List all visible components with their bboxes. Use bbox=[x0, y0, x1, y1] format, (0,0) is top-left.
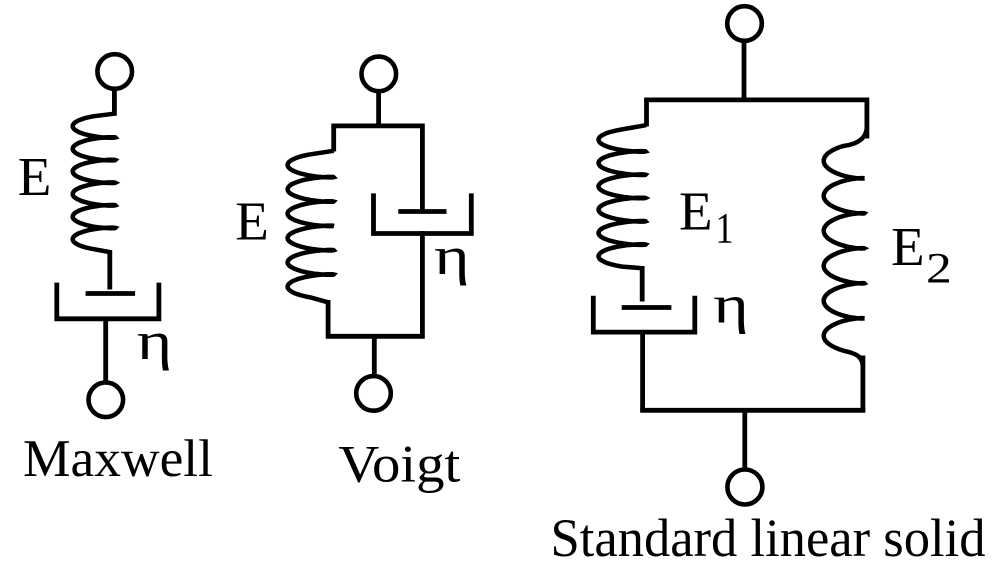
wire (Voigt top bar with branch corners) bbox=[334, 126, 423, 212]
dashpot piston plate (Voigt) bbox=[398, 209, 446, 214]
wire (SLS bottom bar) bbox=[640, 408, 865, 413]
spring E2 (SLS right) bbox=[824, 126, 867, 368]
svg-text:E: E bbox=[891, 216, 925, 277]
spring E (Voigt) bbox=[288, 151, 334, 302]
dashpot piston plate (Maxwell) bbox=[86, 291, 136, 296]
svg-text:2: 2 bbox=[926, 246, 952, 293]
wire (SLS left bottom rod) bbox=[640, 332, 645, 412]
wire (SLS bottom rod) bbox=[742, 410, 747, 470]
wire (Voigt top rod) bbox=[376, 91, 381, 126]
terminal circle (Voigt bottom) bbox=[356, 376, 391, 411]
spring E1 (SLS left) bbox=[599, 125, 647, 268]
dashpot cup (SLS) bbox=[593, 296, 695, 332]
svg-text:E: E bbox=[679, 180, 713, 241]
svg-text:E: E bbox=[18, 146, 52, 207]
wire (SLS top rod) bbox=[742, 41, 747, 101]
spring E (Maxwell) bbox=[73, 114, 116, 252]
wire (Voigt bottom rod) bbox=[372, 336, 377, 377]
terminal circle (Maxwell top) bbox=[97, 54, 132, 89]
wire (SLS top bar with branch corners) bbox=[647, 100, 867, 139]
wire (SLS right rod below spring) bbox=[861, 356, 866, 413]
wire (SLS spring E1 to dashpot rod) bbox=[640, 266, 645, 302]
terminal circle (Maxwell bottom) bbox=[89, 383, 124, 418]
dashpot cup (Voigt) bbox=[374, 193, 472, 233]
terminal circle (SLS bottom) bbox=[727, 470, 762, 505]
dashpot cup (Maxwell) bbox=[57, 283, 159, 319]
wire (Maxwell bottom rod) bbox=[103, 319, 108, 384]
svg-text:η: η bbox=[713, 275, 749, 335]
svg-text:1: 1 bbox=[715, 204, 733, 252]
svg-text:Maxwell: Maxwell bbox=[23, 430, 213, 488]
svg-text:E: E bbox=[235, 190, 269, 251]
wire (Maxwell top rod) bbox=[112, 89, 117, 116]
dashpot piston plate (SLS) bbox=[622, 305, 672, 310]
terminal circle (SLS top) bbox=[727, 6, 762, 41]
svg-text:η: η bbox=[137, 311, 173, 371]
svg-text:Voigt: Voigt bbox=[338, 435, 460, 493]
wire (Voigt bottom bar with branch corners) bbox=[328, 231, 422, 336]
svg-text:η: η bbox=[434, 227, 470, 287]
wire (Maxwell spring to dashpot rod) bbox=[107, 250, 112, 290]
terminal circle (Voigt top) bbox=[362, 57, 397, 92]
svg-text:Standard linear solid: Standard linear solid bbox=[551, 508, 986, 566]
